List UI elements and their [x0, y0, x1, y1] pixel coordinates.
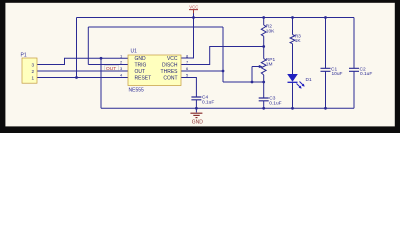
capacitor C2 — [349, 66, 372, 77]
svg-text:GND: GND — [135, 56, 147, 62]
wire C3 to bottom rail — [263, 101, 265, 109]
wire C1 top lead — [325, 18, 327, 69]
junction VCC stem on rail — [192, 16, 195, 19]
wire LED D1 to bottom rail — [292, 82, 294, 108]
junction GND drop on jog wire — [100, 57, 103, 60]
junction C4/GND on bottom rail — [195, 107, 198, 110]
wire TRIG row to U1 pin 2 — [88, 64, 128, 66]
wire C2 bottom lead — [353, 71, 355, 108]
svg-text:10uF: 10uF — [332, 71, 343, 77]
wire RP1 bottom to C3 — [263, 75, 265, 98]
wire R2 bottom to RP1 top — [263, 36, 265, 58]
wire node row to RP1 bottom — [223, 81, 264, 83]
wire VCC stem to U1 pin 8 — [181, 13, 194, 58]
junction VCC drop on RESET wire — [75, 76, 78, 79]
svg-text:0.1uF: 0.1uF — [360, 71, 372, 77]
junction R3 on VCC rail — [291, 16, 294, 19]
wire P1 pin2 to U1 OUT pin 3 — [37, 70, 128, 72]
wire U1 CONT pin 5 to C4 — [181, 78, 196, 98]
svg-text:GND: GND — [192, 120, 204, 126]
junction C1 on bottom rail — [324, 107, 327, 110]
svg-text:1: 1 — [31, 75, 34, 80]
svg-text:VCC: VCC — [167, 56, 178, 62]
svg-text:2: 2 — [31, 69, 34, 74]
connector P1 — [21, 53, 38, 84]
wire GND symbol stub — [195, 108, 197, 112]
ground GND — [190, 113, 203, 125]
LED D1 — [287, 74, 312, 89]
svg-text:DISCH: DISCH — [162, 63, 178, 69]
wire R2 top lead — [263, 18, 265, 26]
svg-text:3: 3 — [31, 62, 34, 67]
junction THRES on TRIG drop — [222, 70, 225, 73]
svg-text:0.1uF: 0.1uF — [202, 100, 214, 106]
svg-text:U1: U1 — [131, 49, 138, 55]
junction wiper on node row — [251, 81, 254, 84]
wire U1 DISCH pin 7 to R2/RP1 node — [181, 47, 264, 65]
capacitor C1 — [321, 66, 343, 77]
svg-text:OUT: OUT — [135, 69, 146, 75]
wire TRIG rail left drop — [87, 27, 89, 65]
svg-text:TRIG: TRIG — [135, 63, 147, 69]
wire C2 top lead — [353, 18, 355, 69]
wire GND drop from node to bottom rail — [100, 58, 102, 108]
wire VCC rail — [77, 17, 355, 19]
svg-text:RESET: RESET — [135, 76, 152, 82]
svg-text:THRES: THRES — [161, 69, 179, 75]
junction D1 on bottom rail — [291, 107, 294, 110]
resistor R3 — [290, 33, 301, 44]
wire TRIG rail right drop — [222, 27, 224, 82]
op-amp U1 NE555 body — [120, 49, 189, 94]
sheet background — [0, 0, 400, 133]
junction C1 on VCC rail — [324, 16, 327, 19]
svg-text:10K: 10K — [266, 29, 275, 35]
wire U1 THRES pin 6 to node — [181, 70, 223, 72]
svg-text:D1: D1 — [306, 77, 312, 83]
wire C1 bottom lead — [325, 71, 327, 108]
svg-text:CONT: CONT — [163, 76, 177, 82]
resistor R2 — [261, 24, 275, 37]
svg-text:VCC: VCC — [189, 4, 198, 9]
junction DISCH rail on R2/RP1 column — [262, 45, 265, 48]
junction R2 on VCC rail — [262, 16, 265, 19]
wire P1 pin1 to U1 RESET pin 4 — [37, 77, 128, 79]
wire R3 to LED D1 — [292, 44, 294, 74]
net label OUT — [105, 66, 119, 72]
junction C3 on bottom rail — [262, 107, 265, 110]
wire TRIG rail — [88, 26, 223, 28]
capacitor C4 — [191, 95, 214, 106]
svg-text:1M: 1M — [266, 62, 273, 68]
junction RP1 bottom node — [262, 81, 265, 84]
wire R3 top lead — [292, 18, 294, 35]
potentiometer RP1 — [252, 57, 275, 75]
wire VCC rail drop to RESET row — [76, 18, 78, 78]
wire C4 to bottom rail — [195, 100, 197, 108]
border frame — [0, 0, 400, 133]
svg-text:1K: 1K — [295, 38, 302, 44]
capacitor C3 — [259, 96, 282, 107]
svg-text:0.1uF: 0.1uF — [269, 100, 281, 106]
svg-text:NE555: NE555 — [129, 88, 145, 94]
wire P1 pin3 to U1 GND pin 1 (jog) — [37, 58, 128, 64]
wire bottom GND rail — [101, 107, 354, 109]
wire RP1 wiper drop — [251, 67, 253, 83]
svg-text:OUT: OUT — [106, 66, 116, 72]
power VCC — [189, 4, 198, 13]
svg-text:P1: P1 — [21, 53, 27, 59]
